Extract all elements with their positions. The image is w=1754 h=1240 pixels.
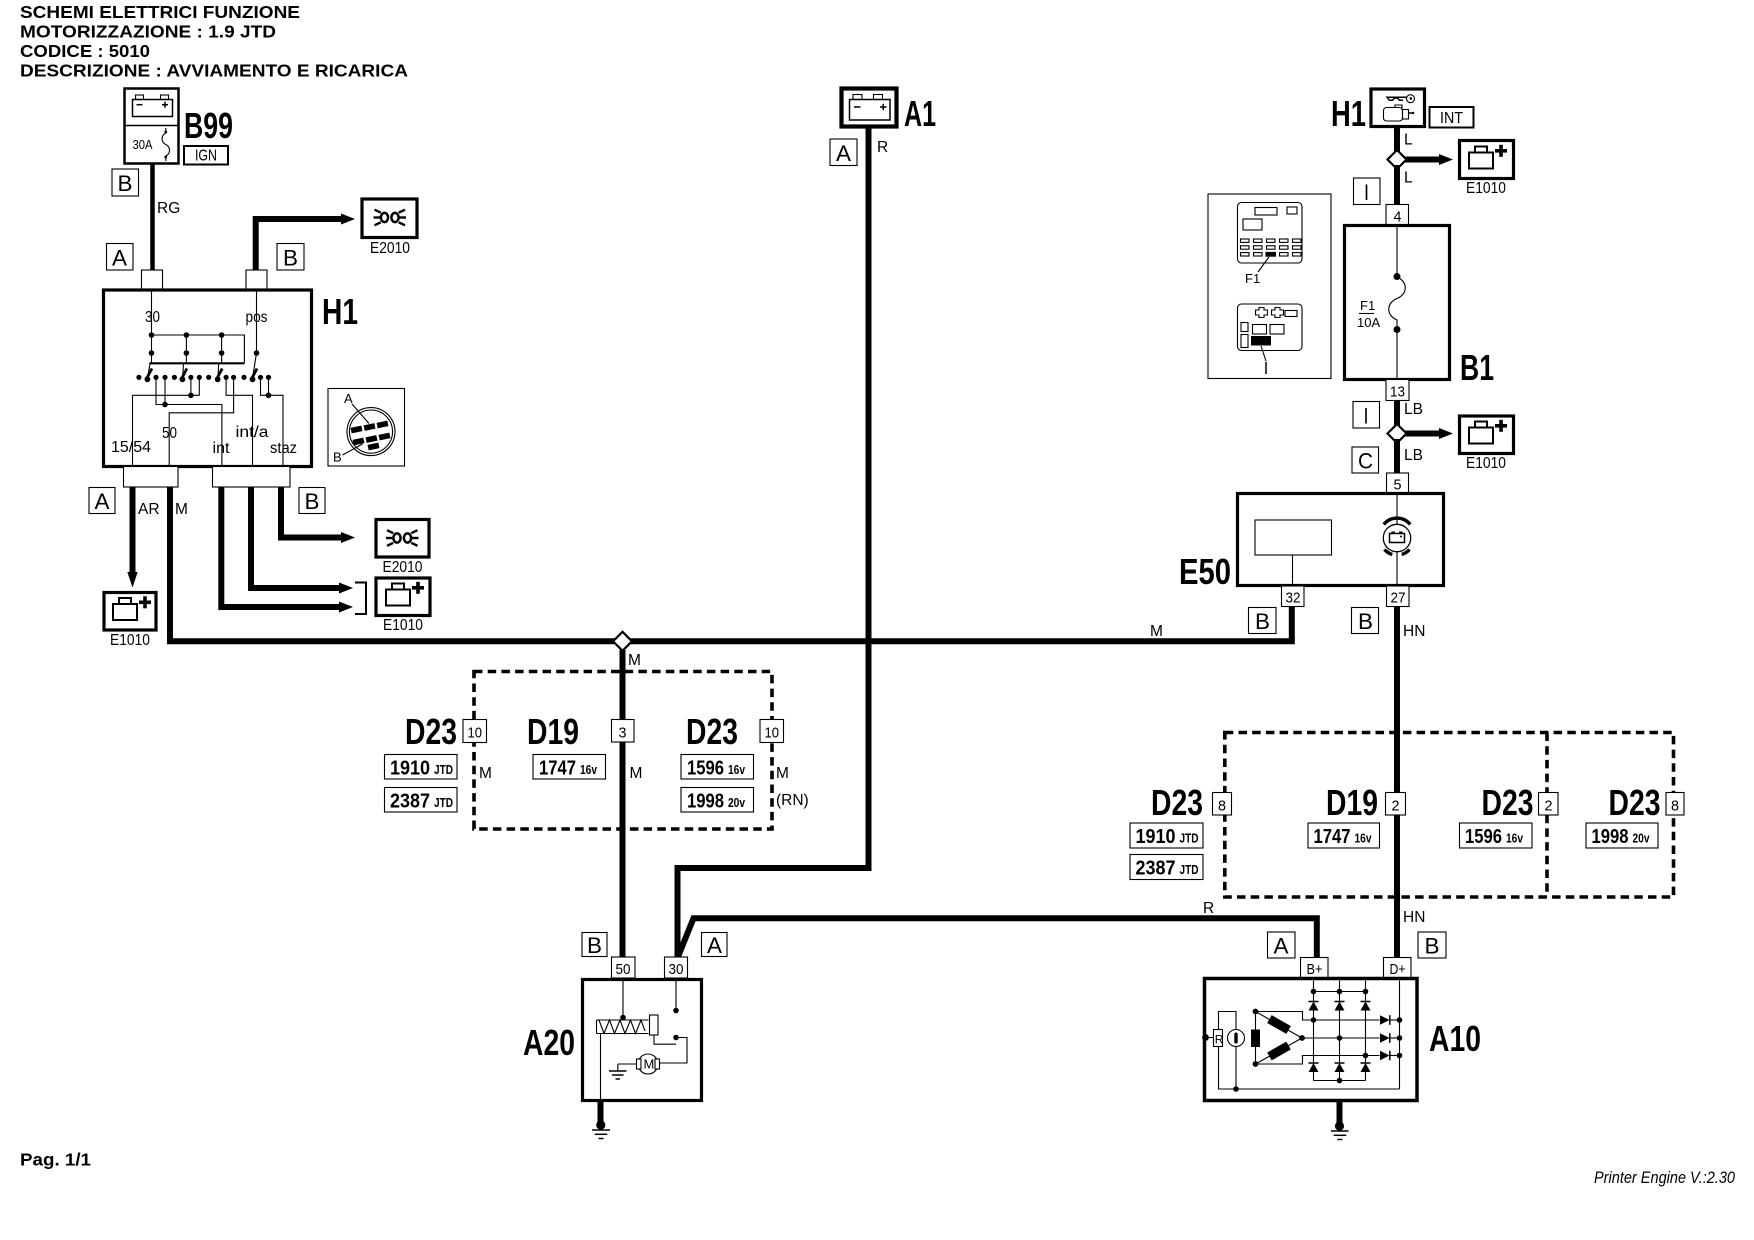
pin box 50 — [612, 957, 636, 978]
pin box 4 — [1386, 205, 1409, 226]
H1 connector face view box — [328, 389, 405, 467]
ground E1010 (left) — [104, 593, 156, 650]
svg-text:A10: A10 — [1429, 1018, 1481, 1059]
svg-text:50: 50 — [162, 425, 177, 442]
ground E1010 (top right) — [1460, 141, 1514, 198]
pin box 30 — [665, 957, 688, 978]
svg-text:50: 50 — [616, 961, 631, 978]
A20 coil return lead — [600, 1034, 602, 1101]
pin box 10 (left 2nd D23) — [760, 720, 784, 743]
arrow to E2010 top — [341, 214, 355, 225]
splice node diamond M — [613, 632, 632, 651]
svg-text:H1: H1 — [1331, 93, 1366, 134]
connector B (H1 bottom) — [299, 488, 325, 515]
svg-text:B: B — [1255, 609, 1270, 634]
label box INT — [1430, 107, 1474, 128]
svg-text:E1010: E1010 — [383, 617, 423, 634]
wire LB from splice to E50 pin 5 — [1394, 439, 1400, 474]
svg-text:4: 4 — [1394, 209, 1402, 226]
pin box 27 — [1387, 586, 1410, 607]
svg-text:B: B — [1425, 934, 1440, 959]
dashed divider (right box) — [1545, 733, 1549, 898]
ground E1010 (right of H1) — [376, 578, 430, 634]
connector A (H1 bottom) — [89, 488, 115, 515]
svg-text:IGN: IGN — [195, 148, 217, 165]
connector B (E50 pin 27) — [1352, 608, 1379, 635]
header title block — [20, 2, 408, 81]
A10 upper diodes — [1309, 1002, 1371, 1011]
svg-text:H1: H1 — [322, 291, 358, 332]
svg-text:1747: 1747 — [1314, 826, 1351, 848]
svg-text:8: 8 — [1218, 798, 1226, 815]
wire RG from B99 to H1 pin 30 — [150, 164, 155, 271]
fuse 30A inside B99 — [133, 128, 170, 161]
wire pos to lamp E2010 (top) — [256, 219, 343, 270]
svg-text:D23: D23 — [686, 711, 738, 752]
wire L from H1 to splice — [1394, 127, 1400, 155]
svg-text:M: M — [776, 765, 789, 782]
svg-text:JTD: JTD — [1180, 863, 1199, 877]
variant box 1910 JTD (right) — [1130, 823, 1203, 848]
svg-text:M: M — [630, 765, 643, 782]
svg-text:E1010: E1010 — [110, 632, 150, 649]
svg-text:staz: staz — [270, 440, 297, 457]
svg-text:20v: 20v — [1633, 832, 1650, 846]
battery fuse unit B99 outline — [125, 89, 179, 164]
svg-text:A: A — [95, 489, 110, 514]
battery A1 — [842, 89, 897, 127]
H1 internal contact row 2 dots — [149, 350, 260, 356]
wire M branch to A20 pin 50 — [620, 650, 626, 958]
svg-text:M: M — [1150, 623, 1163, 640]
H1 pin 30 internal lead — [151, 292, 153, 336]
variant box 1747 16v (right) — [1308, 823, 1380, 848]
variant box 1747 16v (left) — [533, 755, 606, 780]
wire R branch to A10 B+ — [678, 918, 1317, 958]
H1 net to int/a — [226, 377, 252, 466]
pin box 2 (right 2nd D23) — [1539, 793, 1559, 816]
svg-text:M: M — [644, 1057, 655, 1072]
wire HN from E50 pin 27 to A10 D+ — [1394, 607, 1400, 958]
variant box 2387 JTD (right) — [1130, 855, 1203, 880]
fusebox location illustration — [1208, 194, 1331, 379]
svg-text:JTD: JTD — [434, 763, 453, 777]
svg-text:I: I — [1364, 180, 1369, 205]
svg-text:A: A — [112, 246, 127, 271]
instrument cluster E50 outline — [1238, 494, 1444, 586]
H1 net to 50 — [169, 377, 233, 466]
A20 solenoid coil — [597, 978, 659, 1035]
connector C (E50) — [1352, 447, 1379, 474]
connector B (E50 pin 32) — [1249, 608, 1277, 635]
variant box 1910 JTD (left) — [385, 755, 458, 780]
svg-text:HN: HN — [1403, 623, 1425, 640]
arrow int/a to E1010 — [339, 583, 353, 594]
svg-text:16v: 16v — [580, 763, 597, 777]
A10 warning lamp I — [1219, 1012, 1400, 1092]
splice node diamond (L) — [1388, 150, 1407, 169]
svg-text:A1: A1 — [904, 93, 936, 134]
svg-text:1596: 1596 — [687, 758, 724, 780]
svg-text:B1: B1 — [1460, 347, 1494, 388]
svg-text:1910: 1910 — [1136, 826, 1176, 848]
arrow int to E1010 — [339, 602, 353, 613]
svg-text:D19: D19 — [527, 711, 579, 752]
H1 internal bus bar — [149, 362, 244, 364]
A10 ground stud — [1331, 1101, 1349, 1140]
svg-text:10: 10 — [765, 725, 780, 742]
wire int/a to E1010 — [251, 487, 341, 588]
svg-text:30A: 30A — [133, 137, 153, 152]
svg-text:F1: F1 — [1245, 271, 1260, 286]
pin stub box pos on H1 top — [246, 270, 267, 290]
arrow from splice to E1010 (top right) — [1405, 154, 1453, 165]
svg-text:int/a: int/a — [236, 424, 269, 441]
variant box 1998 20v (left) — [681, 788, 754, 813]
svg-text:E1010: E1010 — [1466, 180, 1506, 197]
svg-text:32: 32 — [1286, 590, 1301, 607]
E50 display window — [1255, 520, 1332, 555]
svg-text:30: 30 — [145, 309, 160, 326]
svg-text:B: B — [305, 489, 320, 514]
svg-text:E1010: E1010 — [1466, 455, 1506, 472]
svg-text:Printer Engine V.:2.30: Printer Engine V.:2.30 — [1594, 1169, 1736, 1187]
A10 bridge bottom rail — [1314, 1078, 1366, 1084]
svg-text:1910: 1910 — [390, 758, 430, 780]
svg-text:M: M — [175, 501, 188, 518]
svg-text:E50: E50 — [1179, 551, 1231, 592]
starter motor A20 outline — [583, 980, 702, 1101]
svg-text:D19: D19 — [1326, 782, 1378, 823]
pin box 10 (left D23) — [463, 720, 487, 743]
svg-text:27: 27 — [1391, 590, 1406, 607]
svg-text:2: 2 — [1545, 798, 1553, 815]
lamp E2010 (top) — [362, 199, 417, 257]
svg-text:MOTORIZZAZIONE : 1.9 JTD: MOTORIZZAZIONE : 1.9 JTD — [20, 22, 276, 42]
A10 phase lead top — [1256, 1012, 1380, 1023]
svg-text:DESCRIZIONE : AVVIAMENTO E RIC: DESCRIZIONE : AVVIAMENTO E RICARICA — [20, 61, 408, 81]
svg-text:LB: LB — [1404, 447, 1423, 464]
arrow staz to E2010 — [341, 532, 355, 543]
H1 switch wiper levers — [146, 369, 257, 380]
svg-text:2: 2 — [1392, 798, 1400, 815]
H1 net to int — [156, 377, 222, 466]
A10 phase lead bottom — [1256, 1053, 1380, 1064]
variant box 1998 20v (right) — [1586, 823, 1658, 848]
wire M from H1 to E50 pin 32 — [170, 487, 1292, 641]
svg-text:I: I — [1364, 404, 1369, 429]
variant box 2387 JTD (left) — [385, 788, 458, 813]
pin box 8 (right 3rd D23) — [1666, 793, 1684, 816]
svg-text:D23: D23 — [1609, 782, 1661, 823]
wire LB from B1 to splice 2 — [1394, 401, 1400, 429]
svg-text:pos: pos — [246, 309, 268, 326]
A10 lower diodes — [1309, 1063, 1371, 1072]
H1 net to 15/54 — [133, 377, 200, 466]
junction bracket at E1010 right — [355, 583, 366, 615]
H1 contact stud row — [136, 375, 271, 383]
svg-text:A20: A20 — [523, 1022, 575, 1063]
svg-text:A: A — [707, 933, 722, 958]
svg-text:D23: D23 — [1482, 782, 1534, 823]
connector B (H1 pos) — [277, 244, 304, 271]
arrow from splice to E1010 (right mid) — [1405, 428, 1453, 439]
svg-text:D23: D23 — [405, 711, 457, 752]
svg-text:B: B — [283, 246, 298, 271]
svg-text:1747: 1747 — [539, 758, 576, 780]
H1 internal bus row 1 — [149, 332, 245, 363]
pin box 3 (left D19) — [612, 720, 635, 743]
connector B (A20 pin 50) — [582, 933, 607, 959]
pin box 2 (right D19) — [1386, 793, 1406, 816]
svg-text:M: M — [628, 652, 641, 669]
svg-text:5: 5 — [1394, 477, 1402, 494]
svg-text:1998: 1998 — [687, 791, 724, 813]
A10 regulator terminal R — [1202, 1030, 1224, 1047]
A20 motor M — [609, 1054, 660, 1079]
svg-text:B99: B99 — [184, 105, 233, 146]
svg-text:R: R — [1203, 900, 1214, 917]
pin box B+ — [1301, 958, 1329, 979]
svg-text:RG: RG — [157, 200, 180, 217]
svg-text:Pag. 1/1: Pag. 1/1 — [20, 1150, 91, 1170]
svg-text:B: B — [333, 450, 342, 465]
svg-text:CODICE : 5010: CODICE : 5010 — [20, 41, 150, 61]
svg-text:int: int — [213, 440, 231, 457]
variant box 1596 16v (right) — [1460, 823, 1533, 848]
svg-text:20v: 20v — [728, 796, 745, 810]
svg-text:SCHEMI ELETTRICI FUNZIONE: SCHEMI ELETTRICI FUNZIONE — [20, 2, 300, 22]
E50 display lead to pin 32 — [1292, 555, 1294, 586]
svg-text:B: B — [118, 171, 133, 196]
svg-text:2387: 2387 — [1136, 858, 1176, 880]
wire L from splice to B1 pin 4 — [1394, 165, 1400, 205]
svg-text:B+: B+ — [1307, 961, 1323, 978]
svg-text:10A: 10A — [1357, 315, 1380, 330]
svg-text:1596: 1596 — [1465, 826, 1502, 848]
svg-text:16v: 16v — [728, 763, 745, 777]
svg-text:10: 10 — [468, 725, 483, 742]
svg-text:A: A — [344, 391, 353, 406]
svg-text:1998: 1998 — [1592, 826, 1629, 848]
pin box 13 — [1386, 380, 1409, 401]
wire staz to lamp E2010 (mid) — [281, 487, 343, 538]
pin box D+ — [1384, 958, 1412, 979]
lamp E2010 (mid) — [376, 520, 429, 577]
svg-text:E2010: E2010 — [370, 240, 410, 257]
H1 net to staz — [261, 377, 284, 466]
svg-text:B: B — [1358, 609, 1373, 634]
svg-text:JTD: JTD — [434, 796, 453, 810]
fuse F1 10A inside B1 — [1357, 226, 1405, 380]
pin box 8 (right D23) — [1213, 793, 1232, 816]
connector A (A10 B+) — [1268, 932, 1296, 959]
svg-text:2387: 2387 — [390, 791, 430, 813]
dashed variant box left — [474, 672, 772, 830]
svg-text:L: L — [1404, 132, 1413, 149]
svg-text:15/54: 15/54 — [111, 439, 151, 456]
H1 bottom connector strip left — [124, 467, 179, 488]
svg-text:R: R — [877, 139, 888, 156]
splice node diamond (LB) — [1388, 424, 1407, 443]
wire R from A1 to A20 pin 30 — [678, 127, 869, 958]
ignition switch H1 outline — [104, 290, 312, 467]
connector B (B99) — [112, 169, 139, 196]
svg-text:30: 30 — [669, 961, 684, 978]
A20 contact 30 — [654, 978, 687, 1063]
svg-text:INT: INT — [1440, 110, 1463, 127]
connector A (H1 pin 30) — [107, 244, 134, 271]
svg-text:HN: HN — [1403, 909, 1425, 926]
ground E1010 (right mid) — [1460, 416, 1514, 472]
svg-text:D23: D23 — [1151, 782, 1203, 823]
battery symbol inside B99 — [133, 95, 173, 117]
H1 bottom connector strip right — [213, 467, 291, 488]
svg-text:R: R — [1215, 1033, 1224, 1047]
svg-text:A: A — [1274, 934, 1289, 959]
pin stub box 30 on H1 top — [142, 270, 163, 290]
A10 phase lead mid — [1302, 1035, 1380, 1041]
connector I (B1 top) — [1354, 178, 1381, 205]
svg-text:JTD: JTD — [1180, 832, 1199, 846]
svg-text:8: 8 — [1671, 798, 1679, 815]
svg-text:L: L — [1404, 170, 1413, 187]
svg-text:E2010: E2010 — [383, 559, 423, 576]
svg-text:(RN): (RN) — [776, 792, 809, 809]
svg-text:D+: D+ — [1390, 961, 1406, 978]
svg-text:A: A — [836, 141, 851, 166]
H1 pin pos internal lead — [256, 292, 258, 354]
A10 exciter diodes to D+ — [1380, 981, 1402, 1090]
svg-text:13: 13 — [1390, 384, 1405, 401]
fuse unit B1 outline — [1345, 226, 1450, 380]
H1 wiper feed links — [148, 353, 257, 376]
connector A (A1) — [830, 139, 857, 166]
key-switch H1 icon box — [1371, 89, 1425, 127]
variant box 1596 16v (left) — [681, 755, 754, 780]
svg-text:16v: 16v — [1506, 832, 1523, 846]
svg-text:M: M — [479, 765, 492, 782]
dashed variant box right — [1225, 733, 1674, 898]
A10 rectifier bridge columns — [1314, 981, 1366, 1081]
wire int to E1010 — [221, 487, 341, 607]
A20 ground stud — [592, 1101, 610, 1139]
svg-text:C: C — [1358, 449, 1373, 474]
pin box 32 — [1282, 586, 1305, 607]
A10 bridge top rail — [1311, 989, 1369, 995]
svg-text:B: B — [587, 933, 602, 958]
svg-text:3: 3 — [619, 725, 627, 742]
A10 stator delta winding — [1251, 1009, 1305, 1067]
wire AR to ground E1010 — [127, 487, 137, 588]
alternator A10 outline — [1205, 979, 1418, 1101]
pin box 5 — [1387, 473, 1409, 494]
svg-text:16v: 16v — [1355, 832, 1372, 846]
connector B (A10 D+) — [1418, 932, 1446, 959]
svg-text:AR: AR — [138, 501, 160, 518]
H1 internal row links — [152, 335, 222, 353]
label box IGN — [184, 146, 228, 165]
connector I (B1 bottom) — [1353, 402, 1380, 429]
svg-text:LB: LB — [1404, 401, 1423, 418]
svg-text:F1: F1 — [1360, 298, 1375, 313]
connector A (A20 pin 30) — [702, 933, 728, 959]
E50 charge warning indicator — [1383, 494, 1410, 586]
